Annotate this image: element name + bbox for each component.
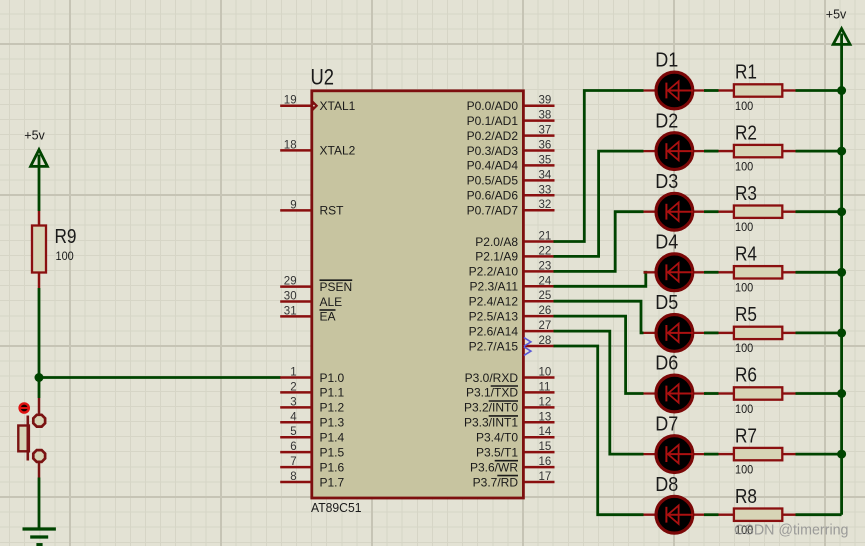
pin 10 P3.0/RXD <box>465 367 555 385</box>
svg-text:P3.1/TXD: P3.1/TXD <box>466 386 518 400</box>
svg-text:D1: D1 <box>655 50 678 72</box>
svg-text:5: 5 <box>290 426 296 438</box>
svg-text:32: 32 <box>539 199 552 211</box>
pin 2 P1.1 <box>280 381 344 399</box>
svg-text:P2.5/A13: P2.5/A13 <box>469 309 519 323</box>
svg-text:P0.0/AD0: P0.0/AD0 <box>467 99 519 113</box>
LED D2 <box>644 110 707 169</box>
LED D8 <box>644 474 707 533</box>
pin 22 P2.1/A9 <box>475 245 554 263</box>
svg-text:P3.4/T0: P3.4/T0 <box>476 431 518 445</box>
pin 23 P2.2/A10 <box>469 260 555 278</box>
svg-text:25: 25 <box>539 290 552 302</box>
svg-text:100: 100 <box>735 220 753 234</box>
wire R4 to +5v rail <box>796 271 842 274</box>
svg-text:30: 30 <box>284 291 297 303</box>
pin 33 P0.6/AD6 <box>467 184 555 202</box>
junction node rail row 6 <box>837 389 846 398</box>
svg-text:P1.7: P1.7 <box>320 475 345 489</box>
junction node rail row 1 <box>837 86 846 95</box>
svg-text:P3.2/INT0: P3.2/INT0 <box>464 401 518 415</box>
pin 30 ALE <box>280 291 342 309</box>
svg-text:36: 36 <box>539 140 552 152</box>
pin 31 EA <box>280 305 335 323</box>
svg-text:R2: R2 <box>735 122 757 144</box>
svg-text:R1: R1 <box>735 62 757 84</box>
wire button to ground <box>38 478 41 530</box>
svg-text:R8: R8 <box>735 486 757 508</box>
svg-text:P1.1: P1.1 <box>320 386 345 400</box>
pin 9 RST <box>280 199 344 217</box>
svg-text:P0.5/AD5: P0.5/AD5 <box>467 174 519 188</box>
LED D3 <box>644 171 707 230</box>
svg-text:D8: D8 <box>655 474 678 496</box>
svg-text:P2.6/A14: P2.6/A14 <box>469 324 519 338</box>
svg-text:P1.0: P1.0 <box>320 371 345 385</box>
svg-text:R3: R3 <box>735 183 757 205</box>
svg-text:EA: EA <box>320 310 336 324</box>
wire R5 to +5v rail <box>796 331 842 334</box>
svg-text:15: 15 <box>539 441 552 453</box>
pin 5 P1.4 <box>280 426 344 444</box>
svg-text:P2.0/A8: P2.0/A8 <box>475 235 518 249</box>
svg-text:35: 35 <box>539 154 552 166</box>
svg-text:P3.6/WR: P3.6/WR <box>470 460 518 474</box>
resistor R5 <box>719 304 796 355</box>
LED D1 <box>644 50 707 109</box>
pin 32 P0.7/AD7 <box>467 199 555 217</box>
svg-text:29: 29 <box>284 276 297 288</box>
resistor R4 <box>719 244 796 295</box>
svg-text:R6: R6 <box>735 365 757 387</box>
svg-text:2: 2 <box>290 381 296 393</box>
svg-text:P2.4/A12: P2.4/A12 <box>469 295 519 309</box>
wire +5v rail <box>840 34 843 515</box>
wire D2 to R2 <box>704 150 719 153</box>
resistor R8 <box>719 486 796 537</box>
svg-text:33: 33 <box>539 184 552 196</box>
svg-text:+5v: +5v <box>826 8 847 22</box>
pin 39 P0.0/AD0 <box>467 95 555 113</box>
svg-text:13: 13 <box>539 411 552 423</box>
svg-text:CSDN @timerring: CSDN @timerring <box>734 523 849 539</box>
svg-text:P3.0/RXD: P3.0/RXD <box>465 371 519 385</box>
svg-text:D4: D4 <box>655 232 678 254</box>
pin 3 P1.2 <box>280 396 344 414</box>
svg-text:17: 17 <box>539 471 552 483</box>
svg-text:RST: RST <box>320 204 345 218</box>
svg-text:6: 6 <box>290 441 296 453</box>
svg-text:1: 1 <box>290 367 296 379</box>
pin 36 P0.3/AD3 <box>467 140 555 158</box>
svg-text:P1.6: P1.6 <box>320 460 345 474</box>
svg-text:9: 9 <box>290 199 296 211</box>
wire D7 to R7 <box>704 453 719 456</box>
svg-text:P0.7/AD7: P0.7/AD7 <box>467 204 519 218</box>
svg-text:ALE: ALE <box>320 295 343 309</box>
power terminal +5v (left) <box>24 128 47 166</box>
svg-text:100: 100 <box>735 159 753 173</box>
pin 24 P2.3/A11 <box>470 275 555 293</box>
LED D7 <box>644 413 707 472</box>
svg-text:P3.3/INT1: P3.3/INT1 <box>464 416 518 430</box>
wire D1 to R1 <box>704 89 719 92</box>
svg-text:100: 100 <box>735 341 753 355</box>
svg-text:P1.4: P1.4 <box>320 431 345 445</box>
pin 21 P2.0/A8 <box>475 231 554 249</box>
pin 12 P3.2/INT0 <box>464 396 555 414</box>
wire P2.4 to D5 <box>554 301 644 333</box>
svg-text:21: 21 <box>539 231 552 243</box>
pin 7 P1.6 <box>280 456 344 474</box>
pin 14 P3.4/T0 <box>476 426 555 444</box>
svg-text:P3.7/RD: P3.7/RD <box>473 475 519 489</box>
pin 15 P3.5/T1 <box>476 441 555 459</box>
wire P2.5 to D6 <box>554 316 644 393</box>
wire P2.0 to D1 <box>554 91 644 242</box>
svg-text:P0.1/AD1: P0.1/AD1 <box>467 114 519 128</box>
svg-text:P2.7/A15: P2.7/A15 <box>469 339 519 353</box>
pin 28 P2.7/A15 <box>469 335 555 353</box>
pin 25 P2.4/A12 <box>469 290 555 308</box>
svg-text:R5: R5 <box>735 304 757 326</box>
pin 13 P3.3/INT1 <box>464 411 555 429</box>
ground <box>23 529 56 545</box>
wire D6 to R6 <box>704 392 719 395</box>
wire P2.3 to D4 <box>554 272 646 286</box>
svg-text:100: 100 <box>735 281 753 295</box>
svg-text:8: 8 <box>290 471 296 483</box>
junction node P1.0 <box>35 373 44 382</box>
svg-text:19: 19 <box>284 95 297 107</box>
svg-text:P3.5/T1: P3.5/T1 <box>476 445 518 459</box>
svg-text:100: 100 <box>56 249 74 263</box>
svg-text:AT89C51: AT89C51 <box>311 501 362 515</box>
svg-text:D6: D6 <box>655 353 678 375</box>
svg-text:R4: R4 <box>735 244 757 266</box>
wire R7 to +5v rail <box>796 453 842 456</box>
pin 29 PSEN <box>280 276 352 294</box>
svg-text:37: 37 <box>539 125 552 137</box>
svg-text:16: 16 <box>539 456 552 468</box>
pin 6 P1.5 <box>280 441 344 459</box>
svg-text:38: 38 <box>539 110 552 122</box>
pin 19 XTAL1 <box>280 95 355 113</box>
svg-text:4: 4 <box>290 411 297 423</box>
pin 34 P0.5/AD5 <box>467 169 555 187</box>
svg-text:P0.6/AD6: P0.6/AD6 <box>467 189 519 203</box>
svg-text:100: 100 <box>735 402 753 416</box>
svg-text:D7: D7 <box>655 413 678 435</box>
wire D3 to R3 <box>704 210 719 213</box>
junction node rail row 7 <box>837 450 846 459</box>
svg-text:12: 12 <box>539 396 552 408</box>
pin 27 P2.6/A14 <box>469 320 555 338</box>
wire R9 to node <box>38 288 41 398</box>
svg-text:14: 14 <box>539 426 552 438</box>
LED D4 <box>644 232 707 291</box>
svg-text:10: 10 <box>539 367 552 379</box>
pin 18 XTAL2 <box>280 139 355 157</box>
LED D5 <box>644 292 707 351</box>
wire D8 to R8 <box>704 513 719 516</box>
svg-text:28: 28 <box>539 335 552 347</box>
resistor R6 <box>719 365 796 416</box>
svg-text:XTAL2: XTAL2 <box>320 144 356 158</box>
op chip U2 AT89C51 body <box>312 91 524 498</box>
pin 1 P1.0 <box>280 367 344 385</box>
svg-text:PSEN: PSEN <box>320 280 353 294</box>
svg-text:39: 39 <box>539 95 552 107</box>
resistor R9 <box>32 211 77 288</box>
svg-text:P1.2: P1.2 <box>320 401 345 415</box>
wire P2.6 to D7 <box>554 331 644 454</box>
pin 35 P0.4/AD4 <box>467 154 555 172</box>
svg-text:+5v: +5v <box>24 128 45 142</box>
svg-text:3: 3 <box>290 396 296 408</box>
resistor R2 <box>719 122 796 173</box>
wire node to P1.0 pin <box>39 376 281 379</box>
pin 16 P3.6/WR <box>470 456 555 474</box>
wire P2.2 to D3 <box>554 212 644 272</box>
svg-text:18: 18 <box>284 139 297 151</box>
wire R1 to +5v rail <box>796 89 842 92</box>
push button <box>18 398 45 478</box>
svg-text:D2: D2 <box>655 110 678 132</box>
power terminal +5v (right) <box>826 8 850 45</box>
junction node rail row 4 <box>837 268 846 277</box>
LED D6 <box>644 353 707 412</box>
svg-text:P2.3/A11: P2.3/A11 <box>470 280 519 294</box>
svg-text:D5: D5 <box>655 292 678 314</box>
svg-text:26: 26 <box>539 305 552 317</box>
wire R8 to +5v rail <box>796 513 842 516</box>
svg-text:R7: R7 <box>735 425 757 447</box>
wire R2 to +5v rail <box>796 150 842 153</box>
svg-text:U2: U2 <box>311 65 335 90</box>
svg-text:100: 100 <box>735 462 753 476</box>
svg-text:23: 23 <box>539 260 552 272</box>
junction node rail row 3 <box>837 207 846 216</box>
svg-text:34: 34 <box>539 169 552 181</box>
svg-text:100: 100 <box>735 99 753 113</box>
resistor R7 <box>719 425 796 476</box>
svg-text:7: 7 <box>290 456 296 468</box>
svg-text:P1.3: P1.3 <box>320 416 345 430</box>
resistor R1 <box>719 62 796 113</box>
wire R3 to +5v rail <box>796 210 842 213</box>
wire D4 to R4 <box>704 271 719 274</box>
wire R6 to +5v rail <box>796 392 842 395</box>
svg-text:P2.2/A10: P2.2/A10 <box>469 265 519 279</box>
svg-text:31: 31 <box>284 305 297 317</box>
svg-text:P0.2/AD2: P0.2/AD2 <box>467 129 519 143</box>
svg-text:11: 11 <box>539 381 551 393</box>
junction node rail row 2 <box>837 147 846 156</box>
pin 11 P3.1/TXD <box>466 381 555 399</box>
svg-text:24: 24 <box>539 275 552 287</box>
push button actuator marker <box>18 402 30 414</box>
wire D5 to R5 <box>704 331 719 334</box>
resistor R3 <box>719 183 796 234</box>
pin 37 P0.2/AD2 <box>467 125 555 143</box>
svg-text:22: 22 <box>539 245 552 257</box>
pin 38 P0.1/AD1 <box>467 110 555 128</box>
wire +5v to R9 <box>38 155 41 212</box>
pin 17 P3.7/RD <box>473 471 555 489</box>
junction node rail row 5 <box>837 328 846 337</box>
wire P2.7 to D8 <box>554 346 644 515</box>
svg-text:R9: R9 <box>55 226 77 248</box>
wire P2.1 to D2 <box>554 151 644 256</box>
svg-text:P0.4/AD4: P0.4/AD4 <box>467 159 519 173</box>
pin 26 P2.5/A13 <box>469 305 555 323</box>
svg-text:XTAL1: XTAL1 <box>320 99 356 113</box>
svg-text:P2.1/A9: P2.1/A9 <box>475 250 518 264</box>
pin 8 P1.7 <box>280 471 344 489</box>
svg-text:P0.3/AD3: P0.3/AD3 <box>467 144 519 158</box>
pin 4 P1.3 <box>280 411 344 429</box>
svg-text:P1.5: P1.5 <box>320 445 345 459</box>
svg-text:27: 27 <box>539 320 552 332</box>
pin 28 selection marker (blue) <box>524 338 531 347</box>
svg-text:D3: D3 <box>655 171 678 193</box>
